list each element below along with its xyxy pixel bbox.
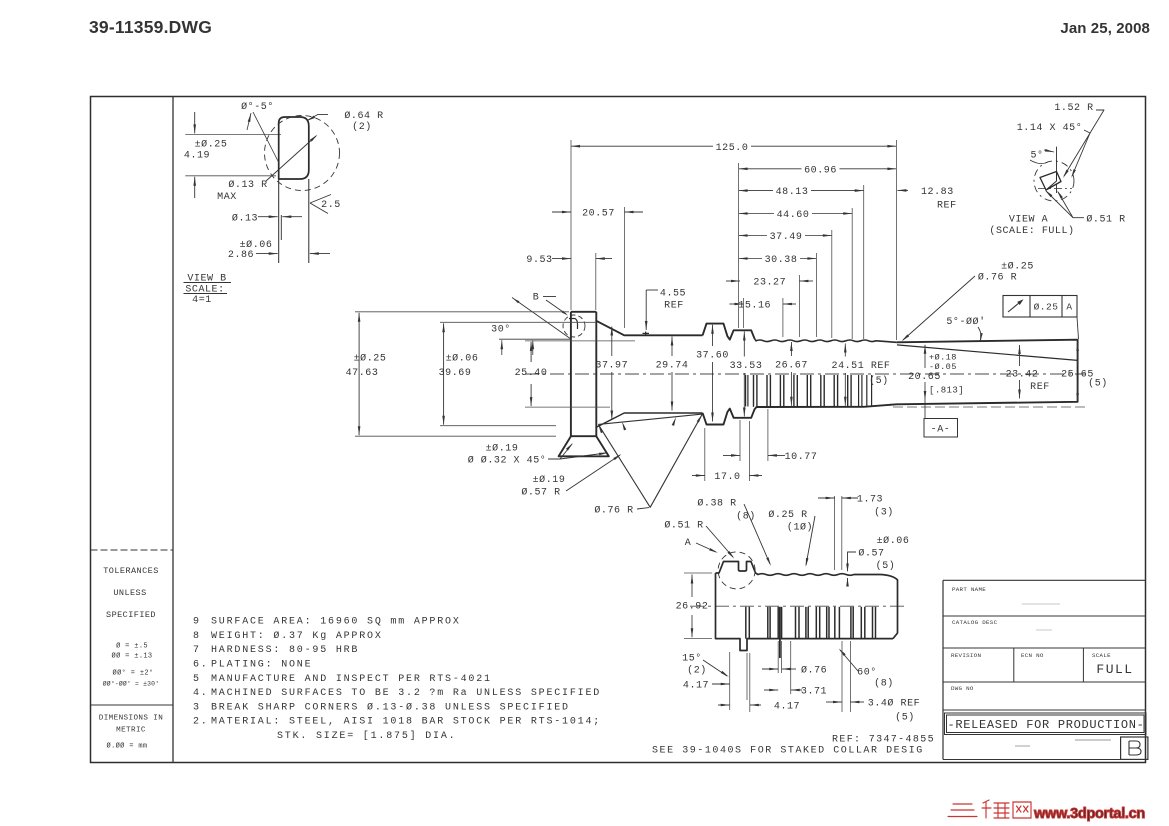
svg-text:26.92: 26.92 bbox=[676, 602, 709, 613]
svg-text:Ø.57: Ø.57 bbox=[858, 548, 884, 560]
svg-text:44.60: 44.60 bbox=[777, 210, 810, 221]
svg-text:-Ø.05: -Ø.05 bbox=[929, 362, 957, 372]
svg-text:SURFACE AREA: 16960 SQ mm APPR: SURFACE AREA: 16960 SQ mm APPROX bbox=[211, 617, 461, 628]
svg-text:Ø.57 R: Ø.57 R bbox=[521, 487, 560, 499]
svg-text:Ø.13: Ø.13 bbox=[232, 212, 258, 224]
svg-text:Ø.25 R: Ø.25 R bbox=[768, 509, 807, 521]
svg-text:±Ø.25: ±Ø.25 bbox=[195, 139, 228, 151]
svg-text:(8): (8) bbox=[874, 678, 894, 690]
svg-text:1.52 R: 1.52 R bbox=[1054, 103, 1093, 114]
svg-text:1.14 X 45°: 1.14 X 45° bbox=[1017, 122, 1083, 134]
svg-text:4=1: 4=1 bbox=[192, 295, 212, 306]
svg-text:33.53: 33.53 bbox=[730, 361, 763, 372]
svg-text:PLATING: NONE: PLATING: NONE bbox=[211, 660, 312, 671]
svg-text:20.57: 20.57 bbox=[582, 209, 615, 220]
svg-text:30.38: 30.38 bbox=[765, 255, 798, 266]
svg-text:B: B bbox=[533, 293, 540, 304]
svg-text:39-11359.DWG: 39-11359.DWG bbox=[89, 17, 212, 37]
svg-text:A: A bbox=[1066, 302, 1072, 313]
svg-text:SEE 39-1040S FOR STAKED COLLAR: SEE 39-1040S FOR STAKED COLLAR DESIG bbox=[652, 746, 924, 757]
svg-text:MATERIAL: STEEL, AISI 1018 BAR: MATERIAL: STEEL, AISI 1018 BAR STOCK PER… bbox=[211, 717, 601, 728]
svg-text:Ø Ø.32 X 45°: Ø Ø.32 X 45° bbox=[468, 455, 547, 467]
svg-text:Ø.76: Ø.76 bbox=[801, 665, 827, 677]
svg-text:MACHINED SURFACES TO BE 3.2 ?m: MACHINED SURFACES TO BE 3.2 ?m Ra UNLESS… bbox=[211, 688, 601, 699]
svg-text:4.17: 4.17 bbox=[774, 702, 800, 713]
svg-text:Ø.38 R: Ø.38 R bbox=[697, 498, 736, 510]
svg-text:(2): (2) bbox=[352, 121, 372, 133]
svg-text:7: 7 bbox=[193, 645, 201, 656]
svg-text:48.13: 48.13 bbox=[776, 187, 809, 198]
svg-text:UNLESS: UNLESS bbox=[113, 588, 146, 598]
svg-text:REF: 7347-4855: REF: 7347-4855 bbox=[832, 735, 935, 746]
svg-text:VIEW A: VIEW A bbox=[1009, 214, 1048, 225]
svg-text:DWG NO: DWG NO bbox=[951, 685, 974, 692]
svg-text:9: 9 bbox=[193, 617, 201, 628]
svg-text:5: 5 bbox=[193, 674, 201, 685]
svg-text:Ø.51 R: Ø.51 R bbox=[1086, 213, 1125, 225]
svg-text:10.77: 10.77 bbox=[785, 452, 818, 463]
svg-text:3.4Ø REF: 3.4Ø REF bbox=[868, 698, 920, 710]
svg-text:[.813]: [.813] bbox=[929, 385, 964, 395]
svg-text:(5): (5) bbox=[876, 560, 896, 572]
svg-text:15°: 15° bbox=[682, 653, 702, 665]
svg-text:17.0: 17.0 bbox=[714, 472, 740, 483]
svg-text:ØØ°-ØØ' = ±30': ØØ°-ØØ' = ±30' bbox=[103, 679, 160, 687]
svg-text:±Ø.06: ±Ø.06 bbox=[446, 352, 479, 364]
svg-text:23.27: 23.27 bbox=[753, 278, 786, 289]
svg-text:Ø.76 R: Ø.76 R bbox=[594, 505, 633, 517]
svg-text:5°: 5° bbox=[1030, 149, 1043, 161]
svg-text:Ø = ±.5: Ø = ±.5 bbox=[116, 642, 148, 651]
svg-text:29.74: 29.74 bbox=[656, 361, 689, 372]
svg-text:26.67: 26.67 bbox=[775, 361, 808, 372]
svg-text:STK. SIZE= [1.875] DIA.: STK. SIZE= [1.875] DIA. bbox=[277, 730, 456, 742]
svg-text:(SCALE: FULL): (SCALE: FULL) bbox=[989, 225, 1074, 237]
svg-text:-A-: -A- bbox=[931, 424, 951, 435]
svg-text:4.19: 4.19 bbox=[184, 151, 210, 162]
svg-text:30°: 30° bbox=[491, 324, 511, 336]
svg-text:Ø.ØØ = mm: Ø.ØØ = mm bbox=[107, 742, 148, 751]
svg-text:VIEW B: VIEW B bbox=[187, 274, 226, 285]
svg-text:60°: 60° bbox=[857, 667, 877, 679]
svg-text:BREAK SHARP CORNERS Ø.13-Ø.38: BREAK SHARP CORNERS Ø.13-Ø.38 UNLESS SPE… bbox=[211, 701, 570, 713]
svg-text:SCALE: SCALE bbox=[1092, 652, 1111, 659]
svg-text:REF: REF bbox=[664, 301, 684, 312]
svg-text:(2): (2) bbox=[687, 665, 707, 677]
svg-text:www.3dportal.cn: www.3dportal.cn bbox=[1033, 806, 1145, 822]
svg-text:25.40: 25.40 bbox=[515, 368, 548, 379]
svg-text:REF: REF bbox=[937, 201, 957, 212]
svg-text:-RELEASED FOR PRODUCTION-: -RELEASED FOR PRODUCTION- bbox=[947, 718, 1144, 732]
svg-text:±Ø.25: ±Ø.25 bbox=[354, 352, 387, 364]
svg-text:HARDNESS: 80-95 HRB: HARDNESS: 80-95 HRB bbox=[211, 645, 359, 656]
svg-text:CATALOG DESC: CATALOG DESC bbox=[952, 619, 998, 626]
svg-text:Ø.76 R: Ø.76 R bbox=[978, 272, 1017, 284]
svg-text:(5): (5) bbox=[895, 711, 915, 723]
svg-text:3.71: 3.71 bbox=[801, 687, 827, 698]
svg-text:MANUFACTURE AND INSPECT PER RT: MANUFACTURE AND INSPECT PER RTS-4021 bbox=[211, 674, 492, 685]
svg-text:DIMENSIONS IN: DIMENSIONS IN bbox=[99, 715, 163, 723]
svg-text:METRIC: METRIC bbox=[116, 727, 146, 735]
svg-text:39.69: 39.69 bbox=[439, 368, 472, 379]
svg-text:9.53: 9.53 bbox=[526, 255, 552, 266]
svg-text:3: 3 bbox=[193, 702, 201, 713]
svg-text:23.42: 23.42 bbox=[1006, 369, 1039, 380]
svg-text:4.55: 4.55 bbox=[660, 289, 686, 300]
svg-text:±Ø.19: ±Ø.19 bbox=[486, 442, 519, 454]
svg-text:37.97: 37.97 bbox=[595, 361, 628, 372]
svg-text:SPECIFIED: SPECIFIED bbox=[106, 610, 156, 620]
svg-text:REVISION: REVISION bbox=[951, 652, 981, 659]
svg-text:(5): (5) bbox=[1088, 378, 1108, 390]
svg-text:Ø.13 R: Ø.13 R bbox=[228, 179, 267, 191]
svg-text:Ø.25: Ø.25 bbox=[1034, 302, 1059, 313]
svg-text:±Ø.19: ±Ø.19 bbox=[533, 474, 566, 486]
svg-text:6.: 6. bbox=[193, 660, 209, 671]
svg-text:1.73: 1.73 bbox=[857, 495, 883, 506]
svg-text:WEIGHT: Ø.37 Kg APPROX: WEIGHT: Ø.37 Kg APPROX bbox=[211, 630, 383, 642]
svg-text:±Ø.06: ±Ø.06 bbox=[240, 239, 273, 251]
svg-text:(8): (8) bbox=[736, 511, 756, 523]
svg-text:37.49: 37.49 bbox=[770, 232, 803, 243]
svg-text:±Ø.25: ±Ø.25 bbox=[1001, 261, 1034, 273]
svg-text:ECN NO: ECN NO bbox=[1021, 652, 1044, 659]
svg-text:ØØ° = ±2°: ØØ° = ±2° bbox=[113, 669, 154, 678]
svg-text:8: 8 bbox=[193, 631, 201, 642]
svg-text:2.5: 2.5 bbox=[321, 200, 341, 211]
svg-text:2.86: 2.86 bbox=[228, 250, 254, 261]
svg-text:60.96: 60.96 bbox=[804, 165, 837, 176]
svg-text:20.65: 20.65 bbox=[908, 372, 941, 383]
svg-text:2.: 2. bbox=[193, 717, 209, 728]
svg-text:5°-ØØ': 5°-ØØ' bbox=[946, 316, 985, 328]
svg-text:Jan 25, 2008: Jan 25, 2008 bbox=[1060, 20, 1150, 37]
svg-text:(3): (3) bbox=[874, 507, 894, 519]
svg-text:SCALE:: SCALE: bbox=[185, 285, 224, 296]
svg-text:ØØ = ±.13: ØØ = ±.13 bbox=[112, 652, 153, 661]
svg-text:12.83: 12.83 bbox=[921, 187, 954, 198]
svg-text:A: A bbox=[685, 538, 692, 549]
svg-text:MAX: MAX bbox=[217, 192, 237, 203]
svg-text:(1Ø): (1Ø) bbox=[787, 522, 813, 534]
svg-text:(5): (5) bbox=[869, 375, 889, 387]
svg-text:4.17: 4.17 bbox=[683, 681, 709, 692]
svg-text:Ø.64 R: Ø.64 R bbox=[344, 110, 383, 122]
svg-text:Ø°-5°: Ø°-5° bbox=[241, 101, 274, 113]
svg-text:24.51 REF: 24.51 REF bbox=[832, 361, 891, 372]
svg-text:4.: 4. bbox=[193, 688, 209, 699]
svg-text:125.0: 125.0 bbox=[716, 143, 749, 154]
svg-text:37.60: 37.60 bbox=[696, 351, 729, 362]
svg-text:47.63: 47.63 bbox=[346, 368, 379, 379]
svg-text:FULL: FULL bbox=[1096, 662, 1133, 677]
svg-text:TOLERANCES: TOLERANCES bbox=[103, 566, 159, 576]
svg-text:+Ø.18: +Ø.18 bbox=[929, 353, 957, 363]
svg-text:Ø.51 R: Ø.51 R bbox=[664, 520, 703, 532]
svg-text:±Ø.06: ±Ø.06 bbox=[877, 535, 910, 547]
svg-text:REF: REF bbox=[1030, 382, 1050, 393]
svg-text:PART NAME: PART NAME bbox=[952, 586, 986, 593]
